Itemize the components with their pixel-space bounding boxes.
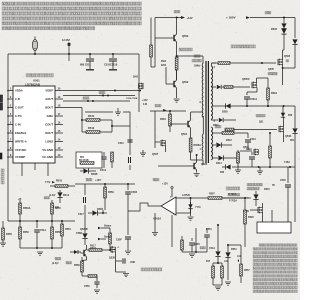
label Y45A bbox=[284, 161, 290, 164]
label differentiation bbox=[1, 169, 4, 184]
resistor R561 bbox=[82, 275, 97, 279]
capacitor C517 bbox=[78, 184, 86, 216]
resistor R503 bbox=[160, 111, 171, 132]
resistor R512b bbox=[224, 86, 250, 89]
wire br link bbox=[227, 244, 241, 258]
svg-text:D50: D50 bbox=[220, 172, 225, 174]
svg-text:Q505C: Q505C bbox=[242, 78, 250, 81]
label supply top bbox=[174, 10, 180, 13]
svg-text:AOUT: AOUT bbox=[45, 97, 53, 101]
label 7.5V bbox=[45, 180, 55, 184]
resistor R555 bbox=[51, 200, 62, 221]
wire subbox outline bbox=[85, 112, 130, 150]
capacitor C50A1 bbox=[244, 92, 258, 107]
wire stab top bbox=[232, 166, 295, 168]
svg-text:VS-GND: VS-GND bbox=[42, 148, 53, 152]
wire primary feed bbox=[177, 56, 203, 63]
label A R520 bbox=[182, 194, 191, 197]
wire opamp out left bbox=[128, 203, 161, 211]
svg-text:R507: R507 bbox=[209, 193, 215, 196]
transistor Q506 bbox=[158, 154, 208, 173]
transformer T501 secondary winding 1 bbox=[211, 63, 216, 119]
label drive circuit bbox=[179, 48, 192, 51]
label +B bbox=[18, 198, 21, 201]
svg-text:COUT: COUT bbox=[45, 123, 53, 127]
mosfet Q507B bbox=[126, 83, 143, 100]
label supply mid bbox=[155, 104, 167, 111]
wire left rail bbox=[7, 54, 9, 221]
wire right branch of control box bbox=[138, 54, 140, 112]
resistor R560 bbox=[109, 231, 112, 250]
svg-text:R559: R559 bbox=[108, 191, 114, 194]
resistor R520 bbox=[244, 198, 255, 247]
svg-text:1MHz: 1MHz bbox=[194, 65, 201, 68]
IC U501 pin names bbox=[15, 89, 53, 160]
svg-text:VC-GND: VC-GND bbox=[42, 155, 53, 159]
label C5NF bbox=[76, 232, 83, 235]
svg-text:YY51: YY51 bbox=[195, 207, 201, 209]
transistor Q517 bbox=[81, 245, 97, 261]
svg-text:D51B: D51B bbox=[97, 208, 103, 211]
IC U501 left pin stubs 1-9 bbox=[7, 88, 13, 158]
svg-text:2200: 2200 bbox=[161, 65, 167, 67]
ground G8 bbox=[225, 282, 231, 285]
svg-text:12-05Z: 12-05Z bbox=[62, 39, 70, 42]
wire r504 down bbox=[176, 70, 178, 80]
label Q505C bbox=[242, 78, 250, 81]
svg-text:+12V: +12V bbox=[187, 16, 193, 20]
svg-text:C550: C550 bbox=[194, 243, 200, 246]
transformer pin numbers bbox=[200, 66, 216, 151]
transformer T501 secondary winding 2 bbox=[211, 127, 213, 160]
zener D510 bbox=[211, 118, 236, 127]
svg-text:D516: D516 bbox=[245, 197, 251, 200]
resistor R501 bbox=[150, 18, 155, 68]
resistor R559 bbox=[104, 184, 115, 210]
diode D503 bbox=[281, 106, 293, 117]
svg-text:Q51B: Q51B bbox=[285, 135, 292, 138]
label rect2 bbox=[215, 125, 221, 128]
svg-text:D505: D505 bbox=[222, 111, 228, 114]
resistor R510 bbox=[50, 180, 75, 188]
capacitor C511 bbox=[86, 54, 94, 70]
svg-text:D51: D51 bbox=[290, 140, 295, 142]
wire right rail low bbox=[288, 167, 295, 222]
resistor R504 bbox=[161, 57, 178, 70]
svg-text:U502A: U502A bbox=[153, 217, 161, 221]
label status1 bbox=[98, 225, 112, 232]
svg-text:R559A: R559A bbox=[23, 207, 31, 210]
svg-text:C550: C550 bbox=[84, 285, 90, 288]
transistor Q503 bbox=[155, 18, 189, 58]
wire q501 emitter bbox=[190, 128, 192, 138]
capacitor C500F bbox=[116, 237, 131, 250]
capacitor C514 bbox=[100, 152, 107, 172]
wire mid bus bbox=[150, 110, 186, 112]
svg-text:GMA: GMA bbox=[47, 114, 53, 118]
label laser C51A bbox=[200, 246, 215, 250]
wire mid verticals bbox=[152, 213, 158, 236]
svg-text:R520: R520 bbox=[248, 216, 254, 219]
label +160V input bbox=[226, 16, 250, 20]
svg-text:ITI: ITI bbox=[272, 184, 275, 187]
svg-text:WRITE-A: WRITE-A bbox=[15, 140, 27, 144]
svg-text:R17: R17 bbox=[206, 261, 211, 263]
resistor R502A bbox=[267, 78, 278, 107]
svg-text:C513: C513 bbox=[250, 138, 256, 141]
svg-text:C-OUT: C-OUT bbox=[15, 106, 24, 110]
svg-text:C51A: C51A bbox=[40, 229, 46, 232]
wire down a bbox=[182, 228, 207, 253]
svg-text:Q505: Q505 bbox=[268, 68, 275, 71]
label U501 bbox=[33, 79, 40, 83]
diode D502 bbox=[271, 18, 287, 41]
wire q501 collector bbox=[191, 112, 203, 120]
mosfet Q507 bbox=[152, 140, 166, 156]
edge component stub a bbox=[0, 95, 3, 110]
svg-text:C510C5118: C510C5118 bbox=[104, 64, 118, 67]
label power & control circuit bbox=[26, 74, 53, 78]
svg-text:Status: Status bbox=[104, 236, 112, 239]
capacitor C552 bbox=[204, 228, 210, 244]
zener D516 bbox=[245, 191, 259, 206]
svg-text:Status: Status bbox=[104, 225, 112, 228]
zener D51A bbox=[215, 224, 220, 263]
wire pin18 run bbox=[63, 100, 130, 102]
svg-text:VDDP: VDDP bbox=[45, 89, 53, 93]
IC U501 LD7883AB body bbox=[13, 86, 55, 163]
mosfet Q505C bbox=[252, 78, 268, 92]
svg-text:C517: C517 bbox=[78, 213, 84, 216]
label LD note bbox=[247, 183, 275, 191]
resistor R554 bbox=[61, 221, 72, 248]
svg-text:C-B: C-B bbox=[15, 97, 20, 101]
resistor A13 bbox=[221, 260, 229, 285]
diode D551 bbox=[225, 245, 237, 280]
svg-text:Q505: Q505 bbox=[284, 55, 291, 58]
svg-text:Q51: Q51 bbox=[259, 122, 264, 124]
svg-text:R50A: R50A bbox=[271, 92, 277, 95]
svg-text:R503: R503 bbox=[160, 118, 166, 121]
resistor R513 bbox=[82, 126, 112, 133]
diode D514 bbox=[57, 190, 69, 203]
svg-text:C-TO: C-TO bbox=[15, 114, 23, 118]
wire drive rail bbox=[155, 17, 181, 68]
svg-text:+ 160V: + 160V bbox=[226, 16, 236, 20]
wire mid rail bbox=[212, 105, 295, 107]
resistor R556 bbox=[19, 221, 30, 248]
label protect circuit bbox=[141, 268, 162, 271]
label A13b bbox=[237, 255, 242, 262]
wire q505 drain bbox=[283, 40, 284, 60]
svg-text:D515: D515 bbox=[264, 188, 270, 191]
resistor R557 bbox=[240, 258, 251, 283]
svg-text:C51A: C51A bbox=[209, 247, 215, 250]
ground G4 bbox=[94, 290, 100, 293]
ground G1 bbox=[115, 108, 121, 115]
diode D519 bbox=[70, 250, 81, 254]
svg-text:C50F: C50F bbox=[116, 239, 122, 242]
wire u502 down bbox=[171, 215, 173, 247]
transformer T501 primary winding bbox=[202, 63, 203, 165]
zener YY51 bbox=[188, 202, 202, 220]
op-amp U502A bbox=[153, 197, 176, 221]
wire 12v bus bbox=[75, 183, 135, 185]
resistor R559A bbox=[19, 200, 31, 221]
svg-text:R508A: R508A bbox=[194, 144, 202, 147]
label net hei-bai bbox=[99, 91, 105, 94]
svg-text:4594: 4594 bbox=[161, 60, 167, 63]
capacitor C510b bbox=[246, 148, 255, 167]
svg-text:R51: R51 bbox=[80, 157, 85, 159]
svg-text:Q503: Q503 bbox=[182, 34, 189, 38]
wire q504 source bbox=[283, 131, 285, 142]
svg-text:VCOMP: VCOMP bbox=[15, 155, 25, 159]
mosfet Q535 bbox=[109, 246, 120, 260]
annotation paragraph (top description text) bbox=[2, 2, 141, 30]
resistor R511 bbox=[225, 128, 234, 131]
svg-text:BOUT: BOUT bbox=[45, 106, 53, 110]
label 5841 bbox=[133, 76, 139, 79]
svg-text:P 703A: P 703A bbox=[229, 200, 237, 203]
surge arrester Z501 bbox=[68, 42, 71, 61]
label +12V supply bbox=[86, 178, 101, 182]
label C550b bbox=[84, 279, 100, 288]
resistor R55B bbox=[51, 221, 62, 248]
svg-text:R556: R556 bbox=[74, 264, 80, 267]
svg-text:C510: C510 bbox=[118, 142, 124, 145]
svg-text:D50: D50 bbox=[288, 115, 293, 117]
svg-text:R513: R513 bbox=[88, 126, 95, 130]
svg-text:Q507: Q507 bbox=[152, 153, 159, 156]
svg-text:D514: D514 bbox=[216, 162, 222, 165]
wire top bus bbox=[8, 53, 139, 55]
wire d51b down bbox=[85, 210, 103, 230]
transistor Q501 bbox=[170, 120, 191, 136]
wire pin20 to +B rail bbox=[63, 90, 141, 92]
svg-text:R555: R555 bbox=[55, 207, 61, 210]
wire opamp in top bbox=[176, 197, 246, 199]
wire ic bottom leads bbox=[22, 163, 48, 176]
resistor R556b bbox=[74, 257, 83, 276]
svg-text:A R520: A R520 bbox=[182, 194, 191, 197]
zener D511 bbox=[290, 106, 298, 167]
mosfet Q504 bbox=[234, 126, 292, 138]
capacitor C51A bbox=[34, 221, 46, 248]
capacitor C5118 bbox=[109, 54, 117, 70]
wire subbox inner bbox=[111, 120, 130, 132]
zener D51B bbox=[88, 208, 107, 216]
svg-text:+15V: +15V bbox=[142, 99, 148, 102]
label LD7883AB bbox=[25, 82, 41, 86]
svg-text:C-IN: C-IN bbox=[15, 123, 21, 127]
ground G5 bbox=[257, 167, 263, 174]
wire sec tap1 bbox=[211, 86, 216, 88]
svg-text:D514: D514 bbox=[63, 194, 70, 197]
wire q535 down bbox=[116, 252, 129, 277]
svg-text:Q506: Q506 bbox=[201, 163, 208, 166]
wire supply arrow bbox=[181, 16, 193, 20]
fuse F501 bbox=[32, 37, 37, 55]
wire lower join bbox=[20, 247, 62, 255]
label 2-4V bbox=[52, 206, 59, 209]
svg-text:D50B: D50B bbox=[91, 173, 98, 176]
svg-text:R554: R554 bbox=[65, 228, 71, 231]
svg-text:R510: R510 bbox=[56, 180, 63, 183]
label switch tube 2 bbox=[256, 114, 265, 123]
optocoupler U503 box bbox=[76, 152, 102, 168]
mosfet Q510 bbox=[240, 146, 259, 155]
svg-text:R558: R558 bbox=[6, 233, 12, 236]
label sense voltage bbox=[228, 193, 240, 202]
resistor R505 bbox=[218, 62, 276, 65]
mosfet Q505 bbox=[278, 55, 291, 65]
svg-text:VCP-INC: VCP-INC bbox=[15, 148, 26, 152]
label switch output circuit bbox=[231, 45, 256, 48]
label 12-05Z bbox=[62, 39, 70, 42]
wire r pair join bbox=[213, 262, 222, 290]
label Q520B bbox=[80, 228, 88, 231]
svg-text:VDDA: VDDA bbox=[15, 89, 23, 93]
transistor Q502 bbox=[166, 67, 189, 88]
svg-text:Q535: Q535 bbox=[109, 257, 116, 260]
wire pins to subbox bbox=[63, 108, 83, 133]
svg-text:C50A1: C50A1 bbox=[250, 98, 258, 101]
capacitor C545 bbox=[280, 167, 291, 202]
svg-text:7.5V: 7.5V bbox=[45, 180, 51, 184]
capacitor C55A bbox=[116, 258, 135, 264]
label chengliu bbox=[52, 257, 72, 265]
svg-text:0-M: 0-M bbox=[143, 104, 147, 106]
svg-text:Y45A: Y45A bbox=[284, 161, 290, 164]
label status2 bbox=[98, 236, 112, 241]
resistor R508 bbox=[189, 138, 203, 160]
diode D50B bbox=[80, 168, 98, 176]
label c2-4V bbox=[44, 194, 56, 199]
svg-text:5841: 5841 bbox=[133, 76, 139, 79]
annotation paragraph (bottom-right description text) bbox=[253, 244, 297, 293]
diode D512 bbox=[212, 139, 232, 148]
label pulse transformer bbox=[192, 55, 201, 68]
svg-text:R557: R557 bbox=[244, 269, 250, 272]
resistor R551v bbox=[181, 236, 184, 252]
transformer T501 core bbox=[206, 61, 208, 163]
edge component stub b bbox=[0, 153, 2, 159]
resistor R51A bbox=[235, 150, 241, 173]
label net run2 bbox=[83, 97, 89, 100]
diode D505 bbox=[222, 103, 231, 113]
svg-text:A5M: A5M bbox=[130, 261, 135, 264]
wire +B bus bbox=[8, 220, 75, 222]
IC U501 right pin stubs 20-12 bbox=[55, 88, 63, 158]
resistor R515 bbox=[111, 152, 114, 168]
resistor R512 bbox=[82, 114, 112, 121]
svg-text:+12V: +12V bbox=[162, 183, 168, 186]
svg-text:DOUT: DOUT bbox=[45, 131, 53, 135]
label supply right bbox=[265, 11, 271, 14]
diode D508 bbox=[217, 85, 224, 89]
resistor R558 bbox=[0, 221, 12, 246]
svg-text:R556: R556 bbox=[23, 231, 29, 234]
svg-text:C514: C514 bbox=[100, 169, 107, 172]
ground G3 bbox=[125, 251, 131, 254]
svg-text:686 C511: 686 C511 bbox=[80, 64, 91, 67]
wire q505 source bbox=[282, 64, 295, 85]
ground G2 bbox=[140, 150, 146, 156]
wire pin19 run bbox=[63, 95, 135, 97]
svg-text:C5NF: C5NF bbox=[76, 232, 83, 235]
resistor R513b bbox=[212, 132, 248, 135]
svg-text:(2-4)V: (2-4)V bbox=[49, 194, 56, 197]
svg-text:+12V: +12V bbox=[95, 179, 101, 182]
svg-text:C51A 750B: C51A 750B bbox=[126, 97, 138, 100]
svg-text:D512: D512 bbox=[226, 139, 232, 142]
svg-text:R512: R512 bbox=[88, 114, 95, 118]
svg-text:D551: D551 bbox=[231, 248, 237, 251]
capacitor C51B bbox=[125, 184, 137, 235]
resistor R17 bbox=[206, 261, 214, 285]
label R551 bbox=[206, 228, 212, 231]
svg-text:ENABLE: ENABLE bbox=[15, 131, 26, 135]
svg-text:Q501: Q501 bbox=[181, 133, 188, 136]
svg-text:Q520B: Q520B bbox=[80, 228, 88, 231]
resistor R507 bbox=[208, 193, 245, 200]
svg-text:(2-4)V: (2-4)V bbox=[52, 262, 59, 265]
mosfet Q509 bbox=[243, 207, 263, 214]
svg-text:C545: C545 bbox=[280, 179, 286, 182]
connector block J501 bbox=[257, 210, 291, 233]
label C511 bbox=[80, 64, 91, 67]
capacitor C513 bbox=[245, 133, 256, 150]
wire q504 drain bbox=[283, 117, 285, 127]
diode D506 bbox=[292, 39, 297, 68]
label stab circuit bbox=[226, 187, 240, 196]
resistor R51B bbox=[269, 132, 272, 167]
diode D509 bbox=[220, 164, 231, 174]
svg-text:D502: D502 bbox=[271, 28, 278, 31]
svg-text:R517: R517 bbox=[90, 245, 96, 248]
wire 160v bus bbox=[250, 17, 295, 39]
resistor R514 bbox=[80, 157, 94, 164]
wire gate1 run bbox=[212, 62, 219, 64]
svg-text:LOM2: LOM2 bbox=[45, 140, 53, 144]
capacitor C518 bbox=[129, 150, 131, 170]
wire opamp supply bbox=[153, 178, 173, 197]
wire q502 emitter bbox=[174, 88, 180, 102]
capacitor C550 bbox=[189, 238, 200, 257]
ground G7 bbox=[194, 174, 200, 177]
resistor R517b bbox=[87, 245, 111, 252]
label switch tube 1 bbox=[268, 68, 277, 75]
svg-text:Q502: Q502 bbox=[182, 80, 189, 84]
wire left drop bbox=[154, 111, 156, 148]
diode D514b bbox=[212, 155, 240, 165]
label +15V bbox=[142, 99, 148, 106]
capacitor C510c bbox=[118, 140, 133, 145]
label C5118 bbox=[104, 64, 118, 67]
diode D517 bbox=[82, 230, 87, 245]
wire q509 down bbox=[262, 203, 264, 225]
wire opamp in bottom bbox=[176, 198, 191, 213]
svg-text:C51B: C51B bbox=[131, 191, 137, 194]
